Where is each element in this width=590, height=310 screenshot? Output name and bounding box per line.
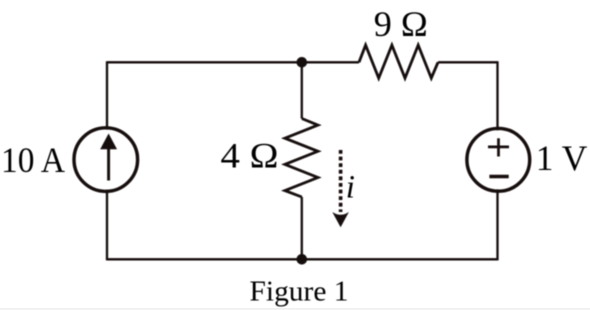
wire left branch upper: [106, 61, 108, 129]
wire bottom rail: [107, 258, 498, 260]
wire middle branch lower: [301, 197, 303, 259]
current arrow i dotted line: [339, 150, 343, 212]
svg-text:i: i: [346, 170, 355, 206]
svg-text:9 Ω: 9 Ω: [374, 4, 428, 44]
svg-text:10 A: 10 A: [1, 140, 65, 180]
faint page edge line at bottom: [0, 308, 590, 309]
node dot top: [297, 57, 308, 68]
current source I1 circle: [74, 128, 138, 192]
voltage source V1 circle: [467, 128, 530, 191]
current source I1 arrow: [100, 134, 117, 181]
wire top rail right segment: [438, 61, 498, 63]
wire right branch lower: [496, 189, 498, 260]
wire right branch upper: [496, 61, 498, 130]
svg-text:4 Ω: 4 Ω: [221, 136, 279, 176]
resistor R1 9ohm zigzag: [359, 45, 438, 78]
voltage source V1 plus sign: [488, 138, 509, 156]
svg-text:1 V: 1 V: [536, 138, 588, 178]
wire top rail left segment: [107, 61, 359, 63]
wire left branch lower: [106, 190, 108, 261]
wire middle branch upper: [301, 62, 303, 118]
current arrow i head: [332, 212, 349, 227]
voltage source V1 minus sign: [489, 175, 508, 178]
svg-text:Figure 1: Figure 1: [250, 277, 349, 308]
resistor R2 4ohm zigzag: [285, 119, 318, 198]
node dot bottom: [297, 254, 308, 265]
